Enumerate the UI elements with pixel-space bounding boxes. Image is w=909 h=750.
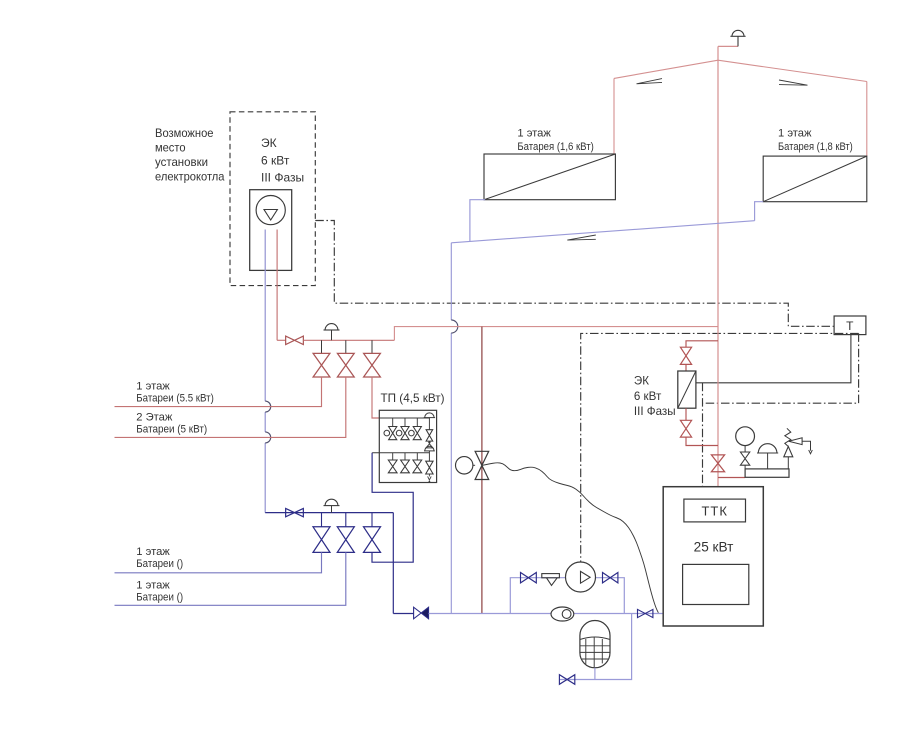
svg-text:ТТК: ТТК bbox=[701, 504, 727, 519]
svg-text:електрокотла: електрокотла bbox=[155, 171, 225, 184]
svg-text:Батареи (5.5 кВт): Батареи (5.5 кВт) bbox=[136, 392, 214, 404]
svg-text:1 этаж: 1 этаж bbox=[517, 127, 551, 139]
svg-text:установки: установки bbox=[155, 156, 208, 169]
svg-text:2 Этаж: 2 Этаж bbox=[136, 412, 173, 424]
svg-text:Т: Т bbox=[846, 319, 854, 333]
svg-text:25 кВт: 25 кВт bbox=[694, 540, 734, 555]
svg-text:Батареи (): Батареи () bbox=[136, 591, 183, 603]
svg-text:1 этаж: 1 этаж bbox=[136, 546, 170, 558]
svg-text:6 кВт: 6 кВт bbox=[261, 153, 290, 167]
svg-text:6 кВт: 6 кВт bbox=[634, 390, 662, 403]
svg-text:III Фазы: III Фазы bbox=[634, 405, 676, 418]
svg-text:Батарея (1,8 кВт): Батарея (1,8 кВт) bbox=[778, 141, 853, 153]
svg-text:Батареи (5 кВт): Батареи (5 кВт) bbox=[136, 424, 207, 436]
svg-text:ЭК: ЭК bbox=[634, 375, 649, 388]
svg-text:1 этаж: 1 этаж bbox=[136, 380, 170, 392]
svg-text:ТП (4,5 кВт): ТП (4,5 кВт) bbox=[381, 391, 445, 405]
svg-text:Батарея (1,6 кВт): Батарея (1,6 кВт) bbox=[517, 141, 594, 153]
svg-text:1 этаж: 1 этаж bbox=[778, 128, 812, 140]
svg-text:ЭК: ЭК bbox=[261, 136, 277, 150]
svg-text:III Фазы: III Фазы bbox=[261, 170, 304, 184]
svg-text:1 этаж: 1 этаж bbox=[136, 580, 170, 592]
svg-text:Возможное: Возможное bbox=[155, 127, 214, 140]
svg-text:Батареи (): Батареи () bbox=[136, 558, 183, 570]
svg-text:место: место bbox=[155, 142, 186, 155]
